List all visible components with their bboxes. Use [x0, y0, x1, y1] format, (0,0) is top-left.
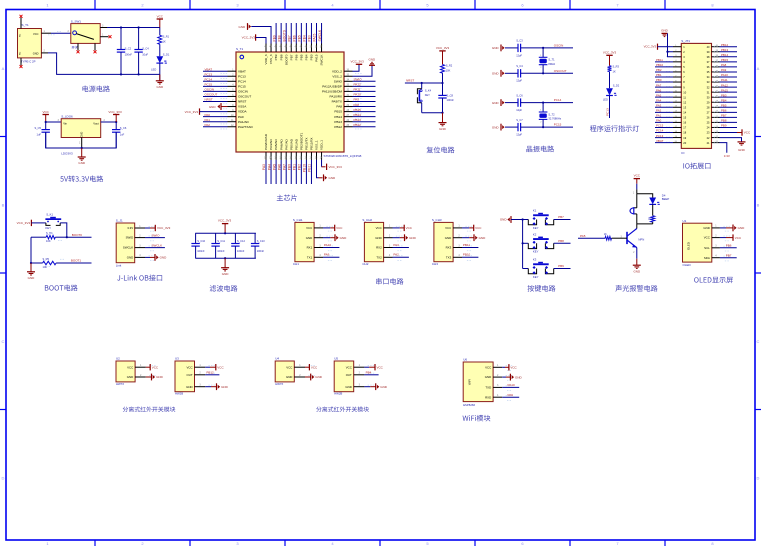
svg-text:PB1: PB1 — [656, 73, 662, 77]
svg-text:GND: GND — [156, 375, 164, 379]
svg-text:1uF: 1uF — [120, 132, 125, 136]
IO connector pin 34 — [712, 76, 720, 78]
capacitor S_C5 1uF — [45, 122, 47, 130]
VCC_3V3 port at MCU VDD_1 pin — [321, 160, 323, 167]
svg-text:VCC: VCC — [127, 365, 133, 369]
svg-text:PA7: PA7 — [656, 83, 662, 87]
svg-text:PB4: PB4 — [303, 35, 307, 41]
switch pin 3 stub — [100, 27, 107, 29]
net PB6 wire at OLED SCL — [720, 247, 737, 249]
svg-text:RXD: RXD — [485, 395, 491, 399]
svg-text:RX1: RX1 — [307, 246, 313, 250]
IO connector pin 10 — [673, 91, 681, 93]
svg-text:PA6: PA6 — [656, 88, 662, 92]
svg-text:HW2B: HW2B — [175, 392, 183, 396]
svg-text:KEY: KEY — [533, 250, 539, 254]
svg-text:PC14: PC14 — [554, 98, 562, 102]
title alarm circuit — [615, 285, 657, 292]
svg-text:PA3: PA3 — [262, 164, 266, 170]
no-connect X at T1 top pin — [20, 15, 23, 18]
MCU pin 13 PA3/RX/AD — [265, 152, 267, 160]
MCU pin 26 PB13 — [344, 121, 353, 123]
svg-text:PB9: PB9 — [272, 35, 276, 41]
svg-text:1K: 1K — [648, 217, 651, 220]
svg-text:BOOT0: BOOT0 — [284, 54, 288, 65]
svg-text:PB15: PB15 — [334, 110, 342, 114]
svg-text:S_R3: S_R3 — [613, 65, 620, 69]
svg-text:S_JT1: S_JT1 — [681, 39, 690, 43]
svg-text:S_C5: S_C5 — [35, 126, 42, 130]
svg-text:PA2/TXAD: PA2/TXAD — [238, 125, 253, 129]
svg-text:VCC: VCC — [286, 365, 292, 369]
svg-text:GND: GND — [78, 161, 86, 165]
MCU pin 34 SWIO — [344, 80, 353, 82]
svg-text:PA10/RX: PA10/RX — [330, 95, 343, 99]
svg-text:S_D2: S_D2 — [613, 83, 620, 87]
GND port at U2 — [146, 376, 152, 378]
svg-text:LED: LED — [603, 98, 608, 102]
svg-text:PB5: PB5 — [299, 54, 303, 60]
svg-text:VCC: VCC — [406, 226, 413, 230]
svg-text:100nF: 100nF — [125, 53, 133, 57]
svg-text:GND: GND — [127, 375, 133, 379]
serial connector S_CH3 body — [434, 222, 453, 261]
svg-text:S_C2: S_C2 — [125, 46, 132, 50]
wire to GND — [159, 74, 161, 80]
IO connector pin 12 — [673, 101, 681, 103]
svg-text:PA10: PA10 — [508, 383, 515, 387]
svg-text:VCC: VCC — [43, 110, 50, 114]
svg-text:PA8: PA8 — [354, 103, 360, 107]
ground symbol of power circuit — [159, 74, 161, 80]
svg-text:BOOT1: BOOT1 — [71, 258, 82, 262]
svg-text:PA0: PA0 — [238, 115, 244, 119]
svg-text:PB15: PB15 — [721, 58, 728, 62]
svg-text:S_R1: S_R1 — [163, 34, 170, 38]
net PB7 wire at OLED SDA — [720, 257, 737, 259]
svg-text:VDDA: VDDA — [238, 110, 248, 114]
svg-text:S_K4: S_K4 — [425, 89, 432, 93]
svg-text:PC15: PC15 — [656, 124, 664, 128]
svg-text:GND: GND — [375, 236, 381, 240]
svg-text:VCC_3V3: VCC_3V3 — [242, 36, 256, 40]
svg-text:PB7: PB7 — [721, 114, 727, 118]
IO connector pin 21 — [712, 142, 720, 144]
wire resistor to bottom node — [652, 222, 654, 224]
MCU pin 12 PA2/TXAD — [228, 126, 237, 128]
svg-text:U5: U5 — [334, 357, 338, 361]
IO connector pin 38 — [712, 56, 720, 58]
svg-text:PA2: PA2 — [393, 253, 399, 257]
svg-text:OLED: OLED — [683, 263, 692, 267]
svg-text:PC14: PC14 — [205, 78, 213, 82]
SWCLK net wire — [145, 247, 165, 249]
IO connector pin 27 — [712, 111, 720, 113]
svg-text:SWIO: SWIO — [354, 78, 363, 82]
svg-text:PB0/AD: PB0/AD — [289, 138, 293, 150]
capacitor S_C4 10uF — [138, 28, 140, 50]
svg-text:GND: GND — [492, 101, 500, 105]
crystal S_X2 32.768KHz — [542, 103, 544, 112]
IO connector pin 4 — [673, 61, 681, 63]
svg-text:PB11: PB11 — [463, 243, 470, 247]
MCU pin 22 PB11/RX — [310, 152, 312, 160]
svg-text:S_D1: S_D1 — [163, 52, 170, 56]
svg-text:1K: 1K — [163, 40, 166, 44]
IO connector pin 31 — [712, 91, 720, 93]
IO connector pin 6 — [673, 71, 681, 73]
svg-text:SWIO: SWIO — [334, 79, 343, 83]
VCC port at S_CH3 — [462, 227, 469, 229]
MCU pin 1 VBAT — [228, 70, 237, 72]
svg-text:PB12: PB12 — [334, 125, 342, 129]
IO connector pin 33 — [712, 81, 720, 83]
IO connector pin 25 — [712, 121, 720, 123]
svg-text:PB1/AD: PB1/AD — [294, 138, 298, 150]
svg-text:S_T2: S_T2 — [548, 112, 555, 116]
svg-text:8MHz: 8MHz — [548, 62, 555, 66]
junction dots on bottom rail — [120, 73, 122, 75]
svg-text:100nF: 100nF — [237, 249, 245, 253]
svg-text:PB9: PB9 — [274, 54, 278, 60]
svg-text:PA1: PA1 — [656, 114, 662, 118]
svg-text:S_C13: S_C13 — [257, 239, 265, 243]
svg-text:PB6: PB6 — [293, 35, 297, 41]
svg-text:VCC: VCC — [336, 226, 343, 230]
svg-text:PA12: PA12 — [721, 83, 728, 87]
svg-text:PB8: PB8 — [279, 54, 283, 60]
key S_K1 of BOOT circuit — [45, 218, 61, 220]
VCC port at U2 — [146, 366, 150, 368]
svg-text:PB10: PB10 — [303, 164, 307, 172]
crystal S_X1 8MHz — [542, 48, 544, 57]
svg-text:S_SW1: S_SW1 — [71, 19, 82, 23]
svg-text:GND: GND — [485, 375, 491, 379]
wire R3 to LED D2 — [609, 72, 611, 89]
serial connector S_CH2 body — [364, 222, 383, 261]
MCU pin 46 PB9 — [275, 44, 277, 53]
svg-text:PB3: PB3 — [721, 93, 727, 97]
BOOT1 net label — [60, 258, 61, 260]
svg-text:VCC: VCC — [735, 236, 742, 240]
capacitor S_C7 12pF — [505, 126, 518, 128]
LED S_D2 — [606, 88, 613, 95]
svg-text:PA5: PA5 — [580, 234, 586, 238]
svg-text:VCC: VCC — [704, 236, 710, 240]
svg-text:1uF: 1uF — [37, 132, 42, 136]
IO connector pin 3 — [673, 56, 681, 58]
IO connector pin 18 — [673, 132, 681, 134]
NRST net wire — [405, 82, 443, 84]
USB connector T1 (TYPE-C 2P) — [18, 29, 42, 58]
svg-text:A: A — [2, 66, 5, 71]
wire buzzer to bottom node — [636, 214, 638, 224]
IO connector pin 40 — [712, 46, 720, 48]
svg-text:SWCLK: SWCLK — [318, 29, 322, 42]
MCU pin 33 PA12/USB/DP — [344, 85, 353, 87]
svg-text:PB15: PB15 — [354, 108, 362, 112]
svg-text:PA8: PA8 — [721, 63, 727, 67]
bottom rail wire — [121, 73, 160, 75]
VCC port at U3 — [205, 366, 210, 368]
svg-text:BOOT0: BOOT0 — [282, 30, 286, 41]
svg-text:K3: K3 — [533, 258, 537, 262]
svg-text:PB10: PB10 — [463, 253, 471, 257]
MCU pin 3 PC14 — [228, 80, 237, 82]
IO connector pin 32 — [712, 86, 720, 88]
title J-Link OB interface — [117, 275, 162, 282]
title crystal circuit — [526, 146, 554, 153]
svg-text:PA0: PA0 — [205, 113, 211, 117]
IO expansion connector S_JP1 body — [681, 43, 711, 148]
svg-text:PB13: PB13 — [334, 120, 342, 124]
svg-text:PB14: PB14 — [721, 53, 728, 57]
net PB10 wire at S_CH3 — [462, 256, 478, 258]
svg-text:PA8: PA8 — [336, 105, 342, 109]
wire LED to bottom rail — [159, 63, 161, 74]
capacitor S_C4 12pF — [505, 72, 518, 74]
OLED module U1 body — [683, 223, 712, 262]
svg-text:12pF: 12pF — [516, 53, 522, 57]
resistor S_R5 10K — [31, 262, 43, 264]
VCC port at S_CH1 — [323, 227, 330, 229]
svg-text:S_C12: S_C12 — [237, 239, 245, 243]
IO connector pin 37 — [712, 61, 720, 63]
svg-text:Link: Link — [116, 264, 122, 268]
wire K1 to BOOT0 node — [60, 223, 67, 237]
svg-text:PB5: PB5 — [298, 35, 302, 41]
svg-text:PA1/AD: PA1/AD — [238, 120, 250, 124]
svg-text:GND: GND — [445, 236, 451, 240]
svg-text:S_C11: S_C11 — [217, 239, 225, 243]
svg-text:VCC: VCC — [475, 226, 482, 230]
svg-text:PB0: PB0 — [656, 78, 662, 82]
wire R1 to LED D1 — [159, 44, 161, 56]
GND port at MCU VSSA pin — [221, 106, 228, 108]
svg-text:10K: 10K — [46, 239, 51, 243]
svg-text:GND: GND — [738, 226, 746, 230]
svg-text:PC14: PC14 — [238, 79, 246, 83]
svg-text:PC15: PC15 — [238, 84, 246, 88]
svg-text:S_CH3: S_CH3 — [432, 218, 442, 222]
MCU pin 9 VDDA — [228, 111, 237, 113]
GND port at U4 — [305, 376, 311, 378]
svg-text:RX2: RX2 — [376, 246, 382, 250]
net PA3 wire at S_CH2 — [393, 247, 409, 249]
svg-text:PA9: PA9 — [354, 98, 360, 102]
svg-text:GND: GND — [329, 176, 337, 180]
VCC port at U4 — [305, 366, 309, 368]
svg-text:PB10: PB10 — [656, 63, 663, 67]
title program run indicator — [590, 125, 639, 132]
svg-text:OLED: OLED — [687, 242, 691, 250]
svg-text:NC: NC — [20, 51, 22, 55]
svg-text:PA12/USB/DP: PA12/USB/DP — [322, 84, 342, 88]
svg-text:PB9: PB9 — [721, 124, 727, 128]
svg-text:VCC: VCC — [311, 365, 318, 369]
wire LDO Vout to VCC_3V3 — [101, 121, 117, 123]
MCU pin 37 SWCLK — [321, 44, 323, 53]
svg-text:S_C6: S_C6 — [120, 126, 127, 130]
svg-text:K2: K2 — [533, 232, 537, 236]
net PB9 wire at key K3 — [554, 268, 571, 270]
svg-text:GND: GND — [156, 85, 164, 89]
svg-text:HW7X: HW7X — [275, 382, 283, 386]
svg-text:PA2: PA2 — [656, 109, 662, 113]
filter top rail — [195, 232, 256, 234]
svg-text:S_C6: S_C6 — [516, 93, 523, 97]
MCU pin 39 PB3 — [310, 44, 312, 53]
svg-text:PB4: PB4 — [366, 371, 372, 375]
svg-text:PB2/BOOT1: PB2/BOOT1 — [299, 133, 303, 150]
svg-text:VCC_3V3: VCC_3V3 — [108, 110, 122, 114]
svg-text:VCC: VCC — [376, 226, 382, 230]
wire switch to VCC node top rail — [107, 27, 160, 29]
svg-text:PA15: PA15 — [313, 34, 317, 42]
svg-text:VCC: VCC — [445, 226, 451, 230]
MCU pin 4 PC15 — [228, 85, 237, 87]
svg-text:HW7X: HW7X — [116, 382, 124, 386]
IO connector pin 7 — [673, 76, 681, 78]
GND port at MCU VSS_2 pin — [353, 65, 373, 76]
MCU pin 19 PB1/AD — [295, 152, 297, 160]
net PA10 wire at S_CH1 — [323, 247, 339, 249]
svg-text:PB0: PB0 — [287, 164, 291, 170]
svg-text:GND: GND — [409, 236, 417, 240]
svg-text:SWCLK: SWCLK — [123, 246, 133, 250]
VCC_3V3 port at MCU VDD_2 pin — [353, 64, 360, 71]
svg-text:10K: 10K — [43, 265, 48, 269]
svg-text:LDO3V3: LDO3V3 — [61, 151, 73, 155]
LED S_D1 — [156, 56, 163, 63]
svg-text:NC: NC — [20, 33, 22, 37]
svg-text:S_C8: S_C8 — [447, 94, 454, 98]
svg-text:S_K1: S_K1 — [46, 212, 53, 216]
svg-text:PB11/RX: PB11/RX — [310, 138, 314, 151]
svg-text:OUT: OUT — [186, 373, 192, 377]
capacitor S_C13 100nF — [254, 233, 256, 243]
svg-text:PB5: PB5 — [721, 103, 727, 107]
svg-text:S_J1: S_J1 — [116, 219, 123, 223]
svg-text:GND: GND — [340, 236, 348, 240]
svg-text:VBAT: VBAT — [656, 139, 664, 143]
resistor S_R1 1K — [159, 28, 161, 36]
LED D4 BEEP — [649, 198, 656, 205]
IO connector pin 14 — [673, 111, 681, 113]
MCU pin 17 PA7/AD — [285, 152, 287, 160]
svg-text:STM32F103C8T6_LQFP48: STM32F103C8T6_LQFP48 — [324, 154, 362, 158]
svg-text:OSCOUT: OSCOUT — [238, 95, 251, 99]
svg-text:OSCOUT: OSCOUT — [554, 69, 567, 73]
pin stub bottom of T1 — [20, 58, 22, 66]
svg-text:VCC_3V3: VCC_3V3 — [17, 221, 31, 225]
svg-text:GND: GND — [492, 72, 500, 76]
GND port at IO pin 22 — [720, 138, 742, 142]
svg-text:S_T1: S_T1 — [548, 58, 555, 62]
svg-text:KEY: KEY — [533, 275, 539, 279]
GND port at S_CH3 — [462, 237, 469, 239]
title WiFi module — [463, 415, 491, 422]
MCU pin 2 PC13 — [228, 75, 237, 77]
svg-text:3.3V: 3.3V — [724, 154, 730, 158]
GND port at WiFi pin 2 — [502, 376, 506, 378]
VCC port at S_CH2 — [393, 227, 400, 229]
IO connector pin 26 — [712, 116, 720, 118]
main MCU U1 STM32F103C8T6 body — [236, 52, 344, 152]
reset key S_K4 — [421, 83, 423, 89]
IO connector pin 1 — [673, 46, 681, 48]
svg-text:PA15: PA15 — [315, 54, 319, 62]
title 3V to 3.3V circuit — [60, 176, 103, 183]
svg-text:PC13: PC13 — [205, 72, 213, 76]
svg-text:PB1: PB1 — [293, 164, 297, 170]
ground symbol of filter circuit — [224, 258, 226, 268]
MCU pin 28 PB15 — [344, 111, 353, 113]
svg-text:PB14: PB14 — [354, 113, 362, 117]
left rail of BOOT circuit — [30, 237, 32, 263]
svg-text:VCC_3V3: VCC_3V3 — [644, 45, 657, 49]
svg-text:PB11: PB11 — [656, 58, 663, 62]
svg-text:PA1: PA1 — [205, 118, 211, 122]
MCU pin 27 PB14 — [344, 116, 353, 118]
svg-text:VCC_3V3: VCC_3V3 — [218, 218, 232, 222]
svg-text:ESP8266: ESP8266 — [463, 403, 475, 407]
svg-text:SWIO: SWIO — [152, 233, 161, 237]
svg-text:10uF: 10uF — [142, 53, 148, 57]
MCU pin 16 PA6/AD — [280, 152, 282, 160]
svg-text:PA3: PA3 — [393, 243, 399, 247]
svg-text:PA9: PA9 — [508, 393, 514, 397]
net PB7 wire at key K1 — [554, 219, 571, 221]
MCU pin 25 PB12 — [344, 126, 353, 128]
svg-text:VCC: VCC — [510, 366, 517, 370]
svg-text:PB9: PB9 — [558, 264, 564, 268]
transistor Q1 NPN — [626, 232, 628, 244]
svg-text:PB7: PB7 — [289, 54, 293, 60]
svg-text:PA0: PA0 — [656, 119, 662, 123]
MCU pin 38 PA15 — [316, 44, 318, 53]
svg-text:PC13: PC13 — [238, 74, 246, 78]
base resistor 1K — [578, 237, 605, 239]
svg-text:NRST: NRST — [406, 79, 414, 83]
MCU pin 31 PA10/RX — [344, 95, 353, 97]
svg-text:GND: GND — [33, 52, 39, 56]
MCU pin 15 PA5/AD — [275, 152, 277, 160]
MCU pin 23 VSS_1 — [316, 152, 318, 160]
svg-text:PA4: PA4 — [656, 98, 662, 102]
net PA10 wire at WiFi TXD — [502, 386, 519, 388]
svg-text:1K: 1K — [604, 233, 607, 236]
svg-text:NPN: NPN — [638, 237, 644, 241]
svg-text:PA6/AD: PA6/AD — [279, 138, 283, 150]
svg-text:32.768KHz: 32.768KHz — [548, 117, 562, 121]
svg-text:PA15: PA15 — [721, 88, 728, 92]
IO connector pin 35 — [712, 71, 720, 73]
serial connector S_CH1 body — [295, 222, 314, 261]
svg-text:GND: GND — [479, 236, 487, 240]
net PB4 wire at U5 OUT — [364, 374, 378, 376]
MCU pin 5 OSCIN — [228, 90, 237, 92]
svg-text:PB3: PB3 — [308, 35, 312, 41]
MCU pin 43 PB7 — [290, 44, 292, 53]
IO connector pin 19 — [673, 137, 681, 139]
svg-text:CH2: CH2 — [362, 262, 368, 266]
svg-text:GND: GND — [500, 218, 508, 222]
capacitor S_C6 12pF — [505, 102, 518, 104]
net PA9 wire at WiFi RXD — [502, 396, 519, 398]
svg-text:VSSA: VSSA — [238, 105, 247, 109]
svg-text:SCL: SCL — [704, 246, 710, 250]
